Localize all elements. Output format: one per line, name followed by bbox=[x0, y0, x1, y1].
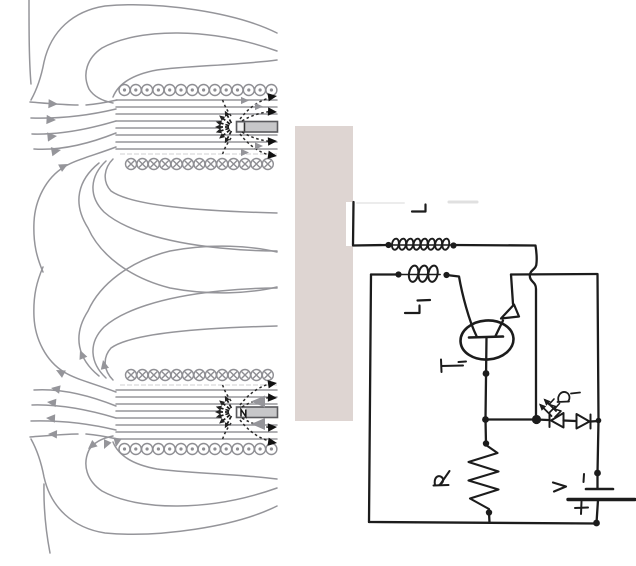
wire resistor stub bbox=[488, 513, 491, 523]
inductor L1 bbox=[398, 265, 440, 283]
field line arc above coil bbox=[113, 60, 277, 97]
node right of L1 bbox=[443, 272, 449, 278]
wire base down bbox=[486, 338, 487, 420]
coil winding row (dots) bbox=[119, 85, 277, 96]
magnet bar bbox=[237, 122, 278, 133]
erased top wire remnant bbox=[357, 202, 404, 204]
solenoid diagram (magnet leaving, mirrored) bbox=[30, 246, 278, 534]
node battery bottom bbox=[593, 520, 600, 527]
node resistor bottom bbox=[486, 509, 492, 515]
LED arrows bbox=[541, 399, 562, 417]
field line arc below coil middle bbox=[93, 161, 277, 251]
coil winding row (crosses) bbox=[126, 159, 274, 170]
wire diode to right rail bbox=[591, 420, 600, 423]
battery V plate long bbox=[568, 498, 635, 501]
node diode branch bbox=[532, 415, 541, 424]
solenoid interior field lines bbox=[116, 99, 277, 101]
solenoid diagram (magnet entering) bbox=[30, 5, 278, 293]
node at branch bbox=[482, 416, 489, 423]
field fan line 1 bbox=[30, 100, 117, 105]
wire L1 left corner bbox=[371, 273, 398, 275]
watermark text line bbox=[120, 153, 277, 155]
magnet pole mark bbox=[244, 123, 246, 132]
transistor base bar bbox=[469, 337, 503, 338]
field direction arrows top diagram bbox=[46, 97, 263, 172]
field line lower-left sweep bbox=[34, 147, 116, 272]
emitter arrow bbox=[501, 305, 519, 319]
battery minus tick bbox=[583, 474, 586, 482]
dashed flux curves at pole bbox=[222, 98, 271, 156]
field line bottom-left exit bbox=[44, 484, 50, 553]
wire bottom rail bbox=[369, 522, 596, 524]
label L bbox=[412, 205, 426, 212]
battery V plate short bbox=[586, 488, 613, 491]
wire battery bottom lead bbox=[597, 500, 599, 523]
node battery top bbox=[594, 470, 601, 477]
wire branch to diodes bbox=[486, 418, 537, 420]
wire top rail bbox=[353, 244, 388, 247]
field fan line 3 bbox=[32, 121, 116, 134]
field fan line 4 bbox=[34, 133, 116, 149]
field line inner top arc bbox=[86, 33, 277, 103]
LED D1 diode 1 bbox=[550, 413, 564, 428]
field line outer top arc bbox=[31, 5, 277, 100]
flux burst at pole tip bbox=[220, 115, 232, 140]
wire L1 to transistor bbox=[447, 275, 477, 336]
diode 2 bbox=[577, 414, 591, 429]
wire between diodes bbox=[564, 419, 576, 422]
field direction arrows bottom diagram bbox=[46, 350, 265, 449]
transistor emitter lead bbox=[496, 321, 504, 337]
wire emitter rail bbox=[511, 273, 597, 276]
N pole label bbox=[238, 409, 247, 417]
wire to resistor bbox=[484, 420, 487, 445]
white patch over panel corner bbox=[346, 202, 364, 246]
label T1 bbox=[441, 360, 466, 373]
node below transistor bbox=[483, 370, 490, 377]
wire right drop with crossover hop bbox=[530, 246, 537, 418]
node right rail at diode bbox=[596, 418, 602, 424]
wire left rail down bbox=[369, 275, 371, 523]
wire right edge drop bbox=[598, 274, 599, 473]
field fan line 2 bbox=[31, 109, 116, 118]
inductor L bbox=[381, 238, 452, 250]
wire battery top lead bbox=[596, 473, 598, 488]
field line arc below coil inner bbox=[105, 159, 277, 213]
node top-right of L bbox=[450, 242, 456, 248]
node left of L1 bbox=[395, 271, 401, 277]
wire emitter up bbox=[511, 275, 513, 305]
battery plus sign bbox=[575, 502, 588, 515]
transistor T1 body bbox=[459, 319, 515, 362]
resistor R bbox=[469, 445, 499, 509]
field line top-left entry bbox=[29, 0, 31, 84]
wire top rail right bbox=[453, 244, 535, 247]
wire left stub bbox=[352, 202, 355, 245]
gray sidebar panel bbox=[295, 126, 353, 421]
label V bbox=[553, 483, 566, 492]
label D1 bbox=[558, 392, 581, 402]
field line arc below coil outer bbox=[79, 163, 277, 293]
wire to LED bbox=[537, 418, 549, 421]
node top-left of L bbox=[385, 242, 391, 248]
node resistor top bbox=[483, 440, 489, 446]
black flux arrowheads bbox=[268, 93, 278, 159]
label L1 bbox=[405, 300, 430, 313]
label R bbox=[434, 471, 450, 486]
